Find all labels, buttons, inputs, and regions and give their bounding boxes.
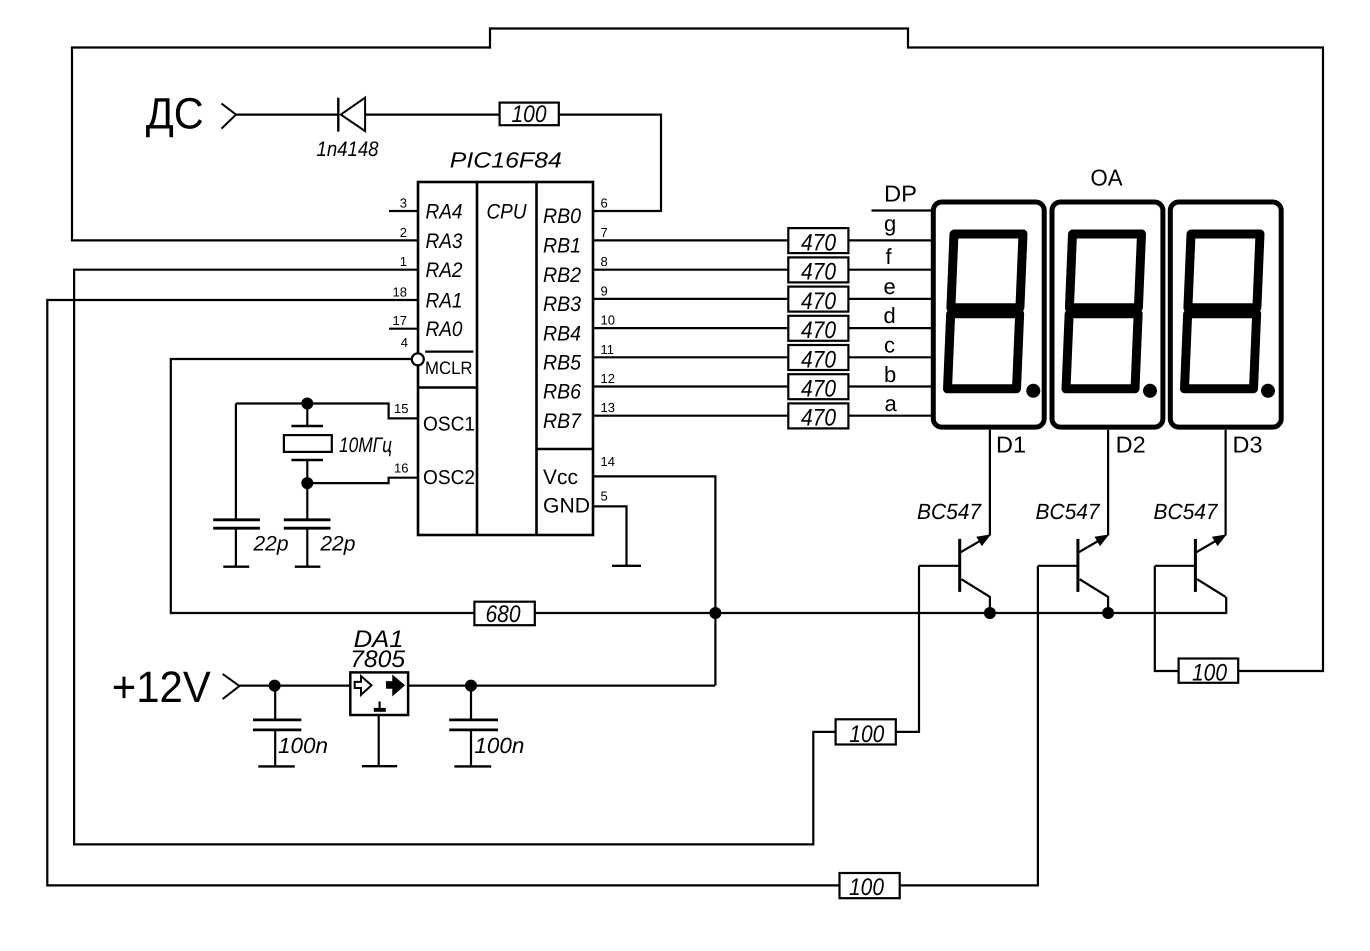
svg-text:RA1: RA1 bbox=[426, 290, 463, 313]
svg-text:16: 16 bbox=[394, 460, 408, 475]
transistor Q1 BC547 bbox=[919, 535, 990, 613]
resistor R2 470 bbox=[788, 228, 848, 256]
svg-text:g: g bbox=[884, 211, 896, 236]
svg-text:RB5: RB5 bbox=[543, 352, 581, 375]
display DISP3 outline bbox=[1170, 202, 1281, 427]
svg-text:OSC1: OSC1 bbox=[423, 414, 475, 436]
wire GND pin5 bbox=[593, 506, 627, 565]
svg-text:100n: 100n bbox=[278, 733, 328, 758]
svg-text:PIC16F84: PIC16F84 bbox=[450, 148, 562, 173]
display DISP1 digit bbox=[948, 234, 1023, 389]
svg-text:11: 11 bbox=[601, 342, 615, 357]
svg-text:RB2: RB2 bbox=[543, 264, 581, 287]
wire D2 to Q2 collector bbox=[1107, 430, 1109, 536]
display DISP1 outline bbox=[933, 202, 1044, 427]
svg-text:RA2: RA2 bbox=[426, 259, 463, 282]
wire R9 to Q1 base bbox=[896, 566, 919, 732]
svg-text:100n: 100n bbox=[474, 733, 524, 758]
wire pin8 f bbox=[593, 269, 931, 271]
svg-text:BC547: BC547 bbox=[1036, 499, 1101, 524]
resistor Ra 470 bbox=[788, 403, 848, 431]
resistor R7 470 bbox=[788, 374, 848, 402]
svg-text:2: 2 bbox=[400, 225, 407, 240]
MCLR overbar bbox=[425, 351, 473, 353]
junction C4 bbox=[465, 680, 477, 692]
svg-text:b: b bbox=[884, 362, 896, 387]
MCLR circle bbox=[412, 353, 424, 365]
wire OSC1 node bbox=[236, 404, 418, 419]
wire R11 to Q3 base bbox=[1155, 566, 1179, 671]
svg-text:MCLR: MCLR bbox=[425, 358, 473, 378]
pin 17 stub RA0 bbox=[389, 328, 418, 330]
svg-text:Vcc: Vcc bbox=[543, 466, 578, 489]
svg-text:OA: OA bbox=[1091, 165, 1124, 191]
wire +12V to regulator bbox=[239, 684, 350, 686]
wire RA1 loop bottom bbox=[47, 300, 839, 885]
svg-text:f: f bbox=[886, 244, 893, 269]
wire D1 to Q1 collector bbox=[989, 430, 991, 536]
svg-text:RA0: RA0 bbox=[426, 318, 463, 341]
svg-text:BC547: BC547 bbox=[1154, 499, 1219, 524]
resistor R8 680 bbox=[474, 601, 534, 628]
svg-text:15: 15 bbox=[394, 401, 408, 416]
resistor R9 100 (Q1 base) bbox=[836, 719, 896, 748]
svg-text:470: 470 bbox=[801, 259, 837, 286]
svg-text:100: 100 bbox=[512, 101, 548, 128]
svg-text:c: c bbox=[884, 333, 895, 358]
node +12V chevron bbox=[223, 674, 240, 699]
svg-text:18: 18 bbox=[393, 285, 407, 300]
svg-text:RB7: RB7 bbox=[543, 410, 582, 433]
display DISP3 digit bbox=[1185, 234, 1260, 389]
svg-text:ДС: ДС bbox=[146, 90, 204, 139]
svg-text:100: 100 bbox=[1192, 660, 1228, 687]
node DS input chevron bbox=[222, 104, 237, 129]
svg-text:100: 100 bbox=[849, 874, 885, 901]
svg-text:8: 8 bbox=[601, 254, 608, 269]
display DISP3 decimal point bbox=[1261, 384, 1275, 398]
wire emitter rail bbox=[535, 597, 1226, 613]
svg-text:5: 5 bbox=[601, 489, 608, 504]
svg-text:470: 470 bbox=[801, 229, 837, 256]
svg-text:e: e bbox=[884, 274, 896, 299]
svg-text:+12V: +12V bbox=[112, 663, 212, 712]
crystal X1 10MHz bbox=[284, 404, 332, 484]
svg-text:RB0: RB0 bbox=[543, 205, 581, 228]
capacitor C1 22p bbox=[213, 404, 260, 567]
svg-text:1: 1 bbox=[400, 254, 407, 269]
svg-text:1n4148: 1n4148 bbox=[317, 138, 379, 161]
svg-text:470: 470 bbox=[801, 288, 837, 315]
svg-text:RB1: RB1 bbox=[543, 235, 581, 258]
resistor R6 470 bbox=[788, 345, 848, 373]
wire DP stub bbox=[872, 209, 932, 211]
wire pin10 d bbox=[593, 327, 931, 329]
resistor R10 100 (Q2 base) bbox=[840, 873, 900, 901]
wire MCLR to 680 rail bbox=[171, 359, 475, 613]
wire DS to diode bbox=[236, 113, 338, 115]
junction crystal bottom bbox=[301, 477, 313, 489]
wire regulator output to Vcc bbox=[407, 684, 715, 686]
junction crystal top bbox=[301, 398, 313, 410]
svg-text:10: 10 bbox=[601, 313, 615, 328]
svg-text:BC547: BC547 bbox=[917, 499, 982, 524]
svg-text:GND: GND bbox=[543, 495, 590, 518]
regulator DA1 7805 bbox=[350, 672, 408, 715]
junction rail-Vcc bbox=[709, 607, 721, 619]
op-amp U1 PIC16F84 box bbox=[418, 182, 593, 535]
resistor R11 100 (Q3 base) bbox=[1179, 659, 1239, 687]
svg-text:680: 680 bbox=[486, 601, 522, 628]
svg-text:D3: D3 bbox=[1233, 432, 1263, 458]
capacitor C4 100n bbox=[449, 686, 498, 767]
regulator ground stem bbox=[378, 716, 380, 766]
svg-text:4: 4 bbox=[401, 335, 408, 350]
wire RA3 top loop to right side bbox=[72, 29, 1323, 672]
resistor R1 100 bbox=[500, 101, 559, 128]
svg-text:RA3: RA3 bbox=[426, 230, 463, 253]
svg-text:13: 13 bbox=[601, 400, 615, 415]
svg-text:a: a bbox=[885, 391, 898, 416]
svg-text:RA4: RA4 bbox=[426, 201, 463, 224]
svg-text:RB4: RB4 bbox=[543, 322, 581, 345]
svg-text:7: 7 bbox=[601, 225, 608, 240]
svg-text:14: 14 bbox=[601, 454, 615, 469]
resistor R3 470 bbox=[788, 257, 848, 285]
svg-text:17: 17 bbox=[393, 313, 407, 328]
wire R1 to pin6 RB0 bbox=[559, 115, 661, 211]
diode 1n4148 bbox=[338, 98, 365, 132]
svg-text:22p: 22p bbox=[253, 533, 289, 556]
regulator ground bar bbox=[362, 765, 397, 767]
svg-text:3: 3 bbox=[400, 196, 407, 211]
svg-text:470: 470 bbox=[801, 317, 837, 344]
svg-text:6: 6 bbox=[601, 196, 608, 211]
junction rail-Q2 bbox=[1102, 607, 1114, 619]
wire pin11 c bbox=[593, 356, 931, 358]
capacitor C2 22p bbox=[284, 483, 331, 567]
wire D3 to Q3 collector bbox=[1224, 430, 1226, 536]
svg-text:d: d bbox=[884, 303, 896, 328]
svg-text:22p: 22p bbox=[319, 533, 355, 556]
svg-text:D1: D1 bbox=[996, 432, 1026, 458]
wire OSC2 node bbox=[307, 478, 418, 483]
svg-text:CPU: CPU bbox=[487, 201, 528, 224]
display DISP2 decimal point bbox=[1143, 384, 1157, 398]
wire diode to R1 bbox=[365, 113, 500, 115]
junction C3 bbox=[269, 680, 281, 692]
wire pin7 g bbox=[593, 239, 931, 241]
svg-text:OSC2: OSC2 bbox=[423, 467, 475, 489]
svg-text:7805: 7805 bbox=[350, 646, 406, 673]
svg-text:D2: D2 bbox=[1116, 432, 1146, 458]
wire Vcc pin14 bbox=[593, 476, 715, 685]
wire RA2 loop bottom bbox=[74, 270, 836, 845]
capacitor C3 100n bbox=[253, 686, 301, 767]
svg-text:9: 9 bbox=[601, 283, 608, 298]
resistor R4 470 bbox=[788, 287, 848, 315]
svg-text:RB6: RB6 bbox=[543, 381, 581, 404]
svg-text:100: 100 bbox=[849, 721, 885, 748]
junction rail-Q1 bbox=[984, 607, 996, 619]
display DISP2 outline bbox=[1052, 202, 1163, 427]
resistor R5 470 bbox=[788, 316, 848, 344]
pin 3 stub RA4 bbox=[389, 210, 418, 212]
svg-text:470: 470 bbox=[801, 405, 837, 432]
transistor Q2 BC547 bbox=[1038, 535, 1108, 613]
svg-text:470: 470 bbox=[801, 376, 837, 403]
wire pin9 e bbox=[593, 298, 931, 300]
wire pin12 b bbox=[593, 385, 931, 387]
wire R10 to Q2 base bbox=[900, 566, 1038, 886]
wire pin13 a bbox=[593, 415, 931, 417]
svg-text:470: 470 bbox=[801, 346, 837, 373]
ground bar pin5 bbox=[612, 565, 641, 567]
svg-text:DP: DP bbox=[884, 181, 917, 207]
svg-text:12: 12 bbox=[601, 371, 615, 386]
display DISP1 decimal point bbox=[1026, 384, 1040, 398]
transistor Q3 BC547 bbox=[1155, 535, 1226, 597]
display DISP2 digit bbox=[1066, 234, 1141, 389]
svg-text:10МГц: 10МГц bbox=[339, 434, 392, 457]
svg-text:RB3: RB3 bbox=[543, 293, 581, 316]
